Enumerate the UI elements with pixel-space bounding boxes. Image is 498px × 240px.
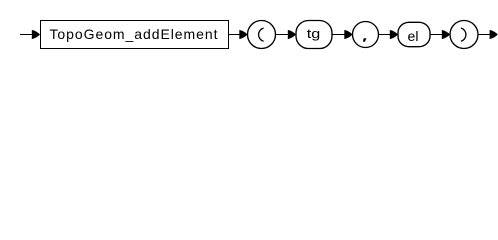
- terminal (: [248, 21, 276, 49]
- label (: [259, 28, 264, 41]
- terminal comma: [353, 22, 379, 48]
- wire tg to comma: [332, 34, 346, 36]
- wire ( to tg: [276, 34, 291, 36]
- arrowhead into el: [390, 30, 398, 39]
- wire box to (: [229, 34, 242, 36]
- terminal tg: [296, 21, 332, 49]
- box TopoGeom_addElement: [41, 21, 229, 49]
- arrowhead exit: [490, 30, 498, 39]
- wire entry: [20, 34, 34, 36]
- svg-text:el: el: [408, 28, 419, 44]
- arrowhead into tg: [288, 30, 296, 39]
- arrowhead into (: [239, 30, 247, 39]
- wire exit: [478, 34, 491, 36]
- label ): [461, 28, 466, 41]
- arrowhead into comma: [344, 30, 352, 39]
- svg-text:tg: tg: [307, 26, 321, 41]
- label comma: [363, 38, 367, 42]
- arrowhead into box: [32, 30, 40, 39]
- arrowhead into ): [442, 30, 450, 39]
- svg-text:TopoGeom_addElement: TopoGeom_addElement: [50, 26, 218, 42]
- terminal ): [450, 21, 478, 49]
- wire el to ): [430, 34, 444, 36]
- wire comma to el: [379, 34, 393, 36]
- terminal el: [398, 22, 430, 46]
